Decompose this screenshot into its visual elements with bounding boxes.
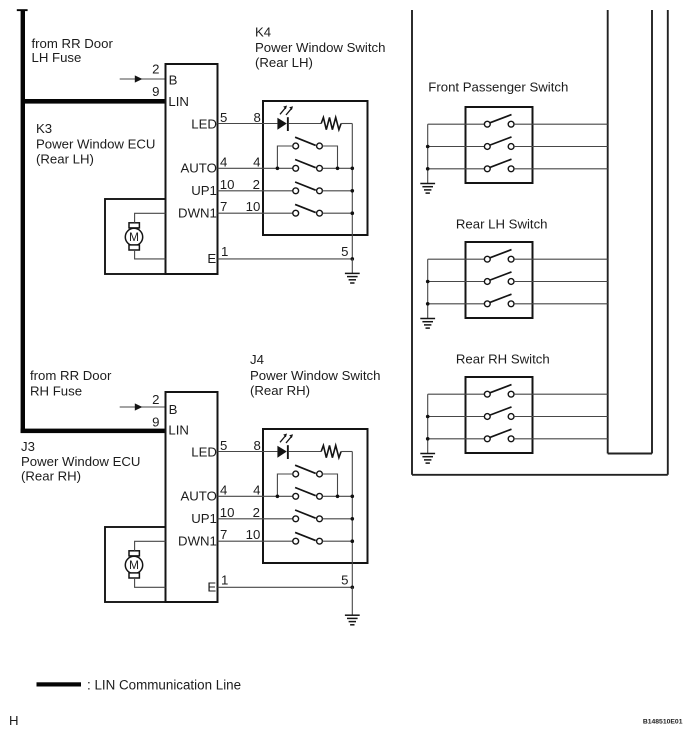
- svg-text:2: 2: [253, 177, 260, 192]
- svg-text:K3: K3: [36, 121, 52, 136]
- svg-text:(Rear LH): (Rear LH): [36, 152, 94, 167]
- ground front passenger: [420, 184, 435, 194]
- wire: resistor to common vertical: [341, 123, 352, 125]
- LIN bus: main vertical trunk: [21, 10, 25, 434]
- label: K3 Power Window ECU (Rear LH): [36, 121, 155, 166]
- label: from RR Door LH Fuse: [32, 36, 114, 65]
- wire: rear LH row 2 left: [428, 281, 485, 283]
- svg-text:LIN: LIN: [168, 423, 189, 438]
- svg-text:4: 4: [220, 155, 227, 170]
- wire: rear RH row 1 left: [428, 393, 485, 395]
- resistor (LED series, in J4): [321, 445, 341, 457]
- wire: motor upper terminal to ECU: [135, 541, 166, 551]
- wire: UP1 pin 10 to contact: [218, 190, 293, 192]
- svg-text:AUTO: AUTO: [180, 161, 216, 176]
- rear RH switch box: [466, 377, 533, 453]
- wire: front passenger row 1 right to bus: [514, 123, 608, 125]
- svg-text:J3: J3: [21, 439, 35, 454]
- node: front passenger row2 joins stub: [426, 145, 430, 149]
- window motor box (Rear LH): [105, 199, 166, 274]
- wire: outer bus right vertical: [667, 10, 669, 475]
- wire: front passenger row 2 left: [428, 146, 485, 148]
- power window ECU J3 box: [166, 392, 218, 602]
- wire: resistor to common vertical: [341, 451, 352, 453]
- svg-text:1: 1: [221, 572, 228, 587]
- motor M (Rear RH): [125, 551, 142, 578]
- node: DOWN joins common: [351, 211, 355, 215]
- wire: AUTO pin 4 to contact: [218, 167, 293, 169]
- wire: front passenger ground stub: [427, 124, 429, 183]
- node: rear LH row2 joins stub: [426, 280, 430, 284]
- legend: LIN communication line sample: [37, 682, 82, 686]
- label: J3 Power Window ECU (Rear RH): [21, 439, 140, 483]
- switch contact K4 AUTO: [293, 160, 323, 172]
- node: AUTO joins common: [351, 495, 355, 499]
- svg-text:Rear RH Switch: Rear RH Switch: [456, 351, 550, 366]
- wire: rear RH ground stub: [427, 394, 429, 453]
- svg-text:4: 4: [253, 155, 260, 170]
- wire: E pin 1 to pin 5 ground: [218, 258, 353, 260]
- wire: front passenger row 3 right to bus: [514, 168, 608, 170]
- switch contact J4 AUTO: [293, 488, 323, 500]
- svg-text:E: E: [207, 580, 216, 595]
- svg-text:1: 1: [221, 244, 228, 259]
- power window switch J4 box: [263, 429, 368, 563]
- node: latch-right joins AUTO: [336, 495, 340, 499]
- svg-text:LH Fuse: LH Fuse: [32, 50, 82, 65]
- wire: UP contact to common: [322, 190, 352, 192]
- node: latch-right joins AUTO: [336, 167, 340, 171]
- node: latch-left joins AUTO: [276, 495, 280, 499]
- node: UP joins common: [351, 517, 355, 521]
- wire: front passenger row 3 left: [428, 168, 485, 170]
- switch contact J4 UP: [293, 510, 323, 522]
- svg-text:M: M: [129, 230, 139, 244]
- svg-text:LIN: LIN: [168, 94, 189, 109]
- switch contact J4 auto-latch: [293, 465, 323, 477]
- svg-text:J4: J4: [250, 352, 264, 367]
- node: AUTO joins common: [351, 167, 355, 171]
- svg-text:2: 2: [152, 61, 159, 76]
- svg-text:B: B: [169, 72, 178, 87]
- svg-text:7: 7: [220, 199, 227, 214]
- svg-text:(Rear RH): (Rear RH): [21, 468, 81, 483]
- wire: DWN1 pin 7 to contact: [218, 212, 293, 214]
- svg-text:10: 10: [220, 177, 235, 192]
- svg-text:7: 7: [220, 527, 227, 542]
- rear LH switch box: [466, 242, 533, 318]
- switch contact K4 auto-latch: [293, 137, 323, 149]
- svg-text:10: 10: [246, 527, 261, 542]
- switch contact K4 DOWN: [293, 204, 323, 216]
- resistor (LED series, in K4): [321, 117, 341, 129]
- wire: rear LH row 1 left: [428, 258, 485, 260]
- wire: rear RH row 1 right to bus: [514, 393, 608, 395]
- switch contact Rear LH Switch DOWN: [484, 272, 514, 285]
- wire: E pin 1 to pin 5 ground: [218, 586, 353, 588]
- switch contact Front Passenger Switch DOWN: [484, 137, 514, 150]
- wire: AUTO pin 4 to contact: [218, 495, 293, 497]
- svg-text:5: 5: [341, 573, 348, 588]
- wire: rear LH ground stub: [427, 259, 429, 318]
- ground J4 pin 5: [345, 615, 360, 625]
- svg-text:8: 8: [253, 110, 260, 125]
- wire: DOWN contact to common: [322, 540, 352, 542]
- wire: inner bus left vertical: [607, 10, 609, 454]
- wire: LED pin 5 to 8: [218, 123, 278, 125]
- LIN bus: break tick at top: [17, 9, 28, 11]
- LED indicator (in K4): [277, 106, 293, 132]
- svg-text:LED: LED: [191, 444, 217, 459]
- svg-text:DWN1: DWN1: [178, 534, 217, 549]
- wire: switch common vertical to ground: [351, 124, 353, 259]
- svg-text:DWN1: DWN1: [178, 206, 217, 221]
- motor M (Rear LH): [125, 223, 142, 250]
- wire: fuse feed to pin 2 (B) of K3 with arrow: [120, 75, 166, 82]
- svg-text:5: 5: [220, 438, 227, 453]
- svg-text:10: 10: [246, 199, 261, 214]
- switch contact Rear LH Switch AUTO: [484, 294, 514, 306]
- wire: ground stem: [351, 259, 353, 274]
- svg-text:5: 5: [341, 244, 348, 259]
- wire: inner bus bottom: [608, 453, 652, 455]
- svg-text:from RR Door: from RR Door: [30, 368, 112, 383]
- LED indicator (in J4): [277, 434, 293, 460]
- wire: motor lower terminal to ECU (E): [135, 578, 166, 587]
- svg-text:Front Passenger Switch: Front Passenger Switch: [428, 80, 568, 95]
- svg-text:4: 4: [253, 483, 260, 498]
- svg-text:(Rear LH): (Rear LH): [255, 55, 313, 70]
- svg-text:Power Window ECU: Power Window ECU: [36, 136, 155, 151]
- wire: outer bus left vertical: [411, 10, 413, 475]
- power window switch K4 box: [263, 101, 368, 235]
- wire: UP contact to common: [322, 518, 352, 520]
- node: E joins switch common: [351, 586, 355, 590]
- wire: motor upper terminal to ECU: [135, 213, 166, 223]
- svg-text:UP1: UP1: [191, 511, 217, 526]
- svg-text:4: 4: [220, 483, 227, 498]
- svg-text:B: B: [169, 402, 178, 417]
- svg-text:5: 5: [220, 110, 227, 125]
- wire: motor lower terminal to ECU (E): [135, 250, 166, 259]
- ground rear RH: [420, 454, 435, 464]
- wire: rear LH row 2 right to bus: [514, 281, 608, 283]
- wire: rear LH row 3 left: [428, 303, 485, 305]
- svg-text:Power Window Switch: Power Window Switch: [250, 368, 380, 383]
- wire: outer bus bottom: [412, 474, 668, 476]
- wire: rear RH row 2 right to bus: [514, 416, 608, 418]
- node: UP joins common: [351, 189, 355, 193]
- svg-text:(Rear RH): (Rear RH): [250, 383, 310, 398]
- wire: DWN1 pin 7 to contact: [218, 540, 293, 542]
- node: latch-left joins AUTO: [276, 167, 280, 171]
- node: front passenger row3 joins stub: [426, 167, 430, 171]
- ground K4 pin 5: [345, 273, 360, 283]
- svg-text:RH Fuse: RH Fuse: [30, 384, 82, 399]
- wire: switch common vertical to ground: [351, 452, 353, 588]
- wire: rear RH row 2 left: [428, 416, 485, 418]
- svg-text:M: M: [129, 558, 139, 572]
- svg-text:Power Window Switch: Power Window Switch: [255, 40, 385, 55]
- node: E joins switch common: [351, 257, 355, 261]
- wire: latch contact right bracket: [322, 146, 337, 168]
- switch contact Rear RH Switch AUTO: [484, 429, 514, 441]
- wire: latch contact left bracket: [277, 474, 292, 496]
- svg-text:from RR Door: from RR Door: [32, 36, 114, 51]
- wire: front passenger row 1 left: [428, 123, 485, 125]
- switch contact Front Passenger Switch UP: [484, 115, 514, 128]
- svg-text:: LIN Communication Line: : LIN Communication Line: [87, 678, 241, 693]
- front passenger switch box: [466, 107, 533, 183]
- wire: rear RH row 3 right to bus: [514, 438, 608, 440]
- wire: latch contact left bracket: [277, 146, 292, 168]
- ground rear LH: [420, 319, 435, 329]
- svg-text:8: 8: [253, 438, 260, 453]
- wire: front passenger row 2 right to bus: [514, 146, 608, 148]
- wire: rear LH row 3 right to bus: [514, 303, 608, 305]
- svg-text:2: 2: [152, 392, 159, 407]
- label: from RR Door RH Fuse: [30, 368, 112, 399]
- wire: LED cathode to resistor: [289, 451, 321, 453]
- wire: AUTO contact to common: [322, 495, 352, 497]
- wire: rear LH row 1 right to bus: [514, 258, 608, 260]
- wire: fuse feed to pin 2 (B) of J3 with arrow: [120, 403, 166, 410]
- svg-text:9: 9: [152, 414, 159, 429]
- LIN bus: branch to K3 pin 9: [22, 99, 166, 104]
- node: rear RH row3 joins stub: [426, 437, 430, 441]
- switch contact Rear RH Switch UP: [484, 385, 514, 398]
- switch contact Rear LH Switch UP: [484, 250, 514, 263]
- window motor box (Rear RH): [105, 527, 166, 602]
- svg-text:K4: K4: [255, 25, 271, 40]
- switch contact Front Passenger Switch AUTO: [484, 159, 514, 172]
- switch contact K4 UP: [293, 182, 323, 194]
- wire: AUTO contact to common: [322, 167, 352, 169]
- power window ECU K3 box: [166, 64, 218, 274]
- svg-text:Power Window ECU: Power Window ECU: [21, 454, 140, 469]
- wire: LED pin 5 to 8: [218, 451, 278, 453]
- wire: rear RH row 3 left: [428, 438, 485, 440]
- wire: LED cathode to resistor: [289, 123, 321, 125]
- wire: DOWN contact to common: [322, 212, 352, 214]
- node: rear RH row2 joins stub: [426, 415, 430, 419]
- node: DOWN joins common: [351, 539, 355, 543]
- wire: UP1 pin 10 to contact: [218, 518, 293, 520]
- wire: latch contact right bracket: [322, 474, 337, 496]
- svg-text:Rear LH Switch: Rear LH Switch: [456, 217, 548, 232]
- switch contact Rear RH Switch DOWN: [484, 407, 514, 420]
- node: rear LH row3 joins stub: [426, 302, 430, 306]
- switch contact J4 DOWN: [293, 532, 323, 544]
- wire: inner bus right vertical: [651, 10, 653, 454]
- svg-text:AUTO: AUTO: [180, 489, 216, 504]
- svg-text:E: E: [207, 251, 216, 266]
- LIN bus: branch to J3 pin 9: [21, 429, 166, 434]
- svg-text:9: 9: [152, 84, 159, 99]
- wire: ground stem: [351, 587, 353, 615]
- label: K4 Power Window Switch (Rear LH): [255, 25, 385, 70]
- svg-text:2: 2: [253, 505, 260, 520]
- svg-text:H: H: [9, 713, 19, 728]
- svg-text:B148510E01: B148510E01: [643, 718, 683, 725]
- svg-text:LED: LED: [191, 116, 217, 131]
- label: J4 Power Window Switch (Rear RH): [250, 352, 380, 398]
- svg-text:10: 10: [220, 505, 235, 520]
- svg-text:UP1: UP1: [191, 183, 217, 198]
